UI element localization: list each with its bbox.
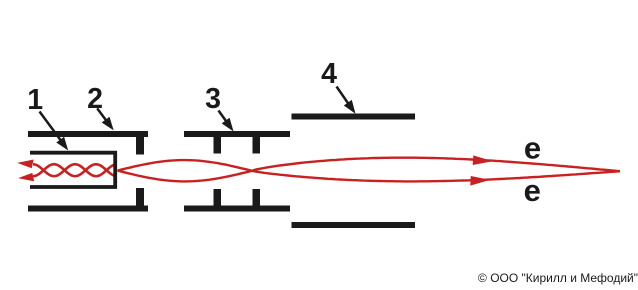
electrode 3 top plate (bar) [184, 131, 290, 137]
leader arrow for label 4 [337, 87, 356, 114]
beam arrowhead lower (red) [470, 176, 490, 186]
svg-text:© ООО "Кирилл и Мефодий": © ООО "Кирилл и Мефодий" [478, 271, 638, 285]
svg-text:3: 3 [205, 83, 221, 115]
electrode 3 bottom plate (bar) [184, 206, 290, 212]
filament helix (red) upper strand [33, 164, 114, 176]
svg-text:2: 2 [87, 83, 103, 115]
electrode 3 top plate pin A [214, 137, 222, 154]
electrode 3 bottom plate pin A [214, 189, 222, 206]
beam lens 2 upper edge (red, to focus) [252, 158, 620, 172]
electrode 3 bottom plate pin B [253, 189, 261, 206]
beam lens 1 lower edge (red) [118, 171, 252, 182]
leader arrow for label 3 [219, 111, 234, 132]
electrode 4 bottom plate (bar) [292, 222, 416, 228]
filament helix (red) lower strand [33, 164, 114, 176]
svg-text:4: 4 [321, 58, 337, 90]
beam lens 1 upper edge (red) [118, 160, 252, 171]
cathode housing 1 (open-left box) [30, 153, 115, 187]
leader arrow for label 1 [40, 112, 69, 151]
electrode 2 bottom plate (bar) [28, 206, 148, 212]
svg-text:e: e [524, 173, 541, 208]
filament current arrow upper (red, points left-up) [17, 160, 33, 169]
electrode 2 top plate pin [136, 137, 144, 155]
leader arrow for label 2 [97, 108, 114, 130]
electrode 2 bottom plate pin [136, 188, 144, 206]
beam lens 2 lower edge (red, to focus) [252, 171, 620, 182]
electrode 3 top plate pin B [253, 137, 261, 154]
filament current arrow lower (red, points left-down) [18, 173, 34, 182]
electrode 4 top plate (bar) [292, 114, 416, 120]
svg-text:1: 1 [27, 84, 43, 116]
electrode 2 top plate (bar) [28, 131, 148, 137]
svg-text:e: e [524, 131, 541, 166]
beam arrowhead upper (red) [473, 155, 493, 165]
